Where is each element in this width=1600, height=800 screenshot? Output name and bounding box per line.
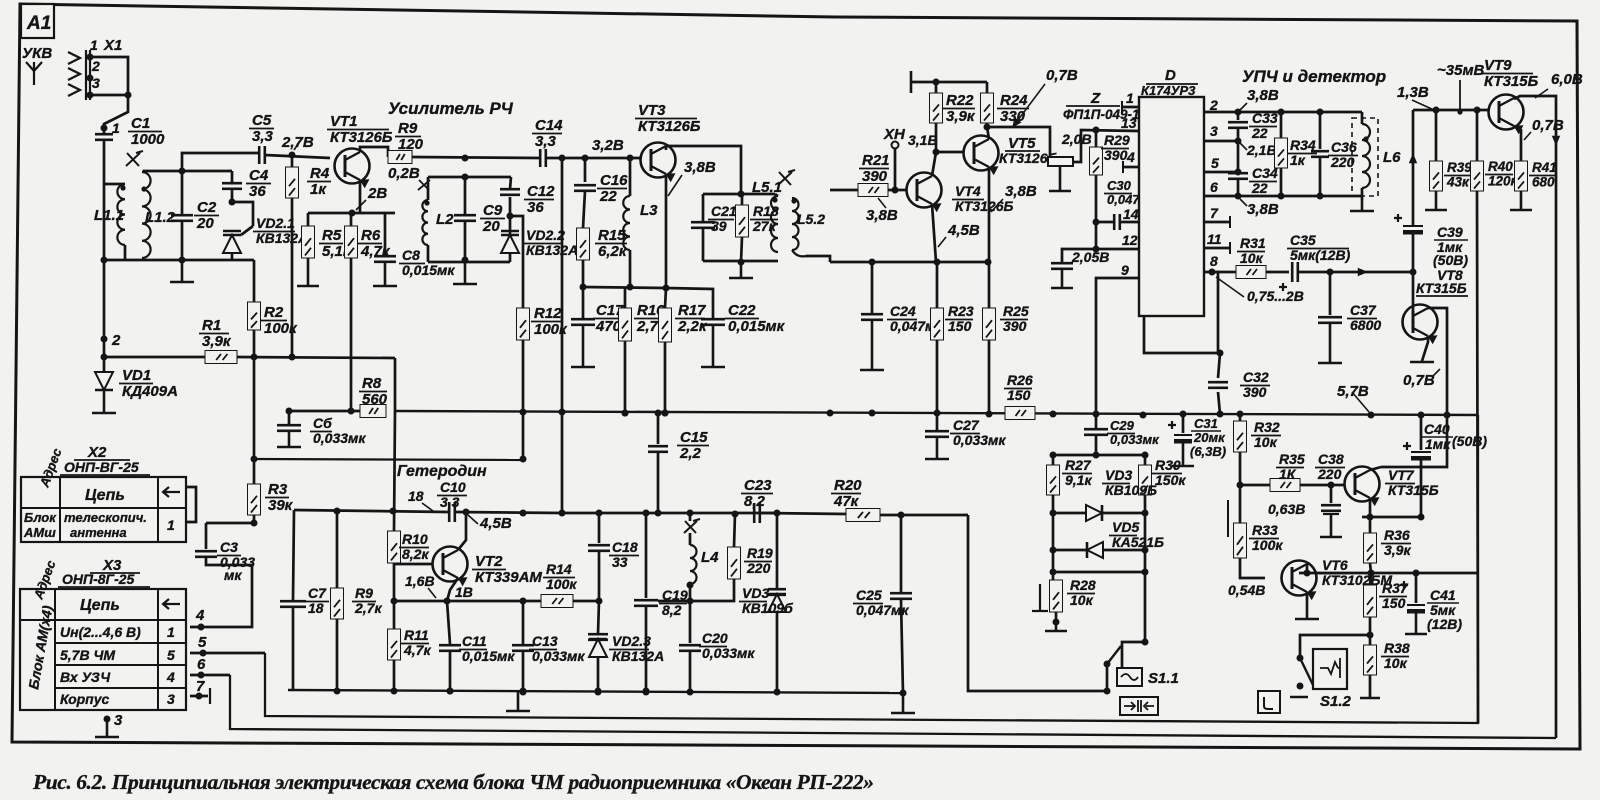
svg-text:0,75...2В: 0,75...2В [1247, 288, 1304, 304]
svg-text:9: 9 [1121, 262, 1129, 278]
svg-text:С33: С33 [1252, 110, 1278, 126]
svg-text:0,015мк: 0,015мк [402, 262, 455, 278]
resistor R2 [253, 260, 256, 302]
svg-text:С36: С36 [1331, 139, 1357, 155]
resistor R15 [583, 191, 585, 228]
wire [206, 522, 254, 525]
svg-text:3,3: 3,3 [252, 128, 274, 145]
resistor R34 [1280, 112, 1283, 138]
wire arrow up [1412, 110, 1415, 226]
svg-text:3,9к: 3,9к [946, 108, 976, 125]
transistor VT9 [1481, 57, 1539, 90]
tuning mark [778, 170, 795, 185]
svg-text:VT2: VT2 [475, 553, 503, 570]
svg-text:R20: R20 [834, 477, 862, 494]
power rail [910, 71, 913, 93]
svg-text:0,015мк: 0,015мк [728, 318, 786, 335]
svg-text:3: 3 [1210, 123, 1218, 139]
svg-text:Вх УЗЧ: Вх УЗЧ [60, 669, 111, 685]
svg-text:390: 390 [1243, 384, 1267, 400]
transistor VT2 [433, 547, 468, 587]
resistor R1 [205, 351, 237, 364]
svg-text:L1.2: L1.2 [145, 209, 176, 226]
svg-text:560: 560 [362, 391, 388, 408]
connector X3 table [20, 557, 186, 710]
svg-text:R38: R38 [1384, 640, 1410, 656]
svg-text:R19: R19 [747, 545, 773, 561]
inductor L1.1 [117, 184, 125, 245]
svg-text:680: 680 [1532, 175, 1555, 190]
svg-text:0,033мк: 0,033мк [532, 648, 585, 664]
transistor VT7 [1345, 467, 1380, 507]
svg-text:8: 8 [1210, 253, 1218, 269]
svg-text:2,0В: 2,0В [1061, 131, 1092, 147]
svg-text:С20: С20 [702, 630, 728, 646]
svg-text:10к: 10к [1384, 655, 1408, 671]
wire [360, 147, 388, 157]
resistor R25 [988, 262, 991, 308]
svg-text:1,6В: 1,6В [405, 573, 435, 589]
svg-text:0,033мк: 0,033мк [953, 432, 1006, 448]
connector X1 [68, 37, 122, 100]
resistor R3 [253, 459, 256, 484]
wire base VT5 [936, 151, 963, 154]
svg-text:С39: С39 [1437, 224, 1463, 240]
svg-text:10к: 10к [1070, 592, 1094, 608]
svg-text:1: 1 [112, 120, 120, 136]
svg-text:R28: R28 [1070, 577, 1096, 593]
svg-text:6800: 6800 [1350, 317, 1381, 333]
resistor R16 [624, 287, 627, 308]
ground [729, 262, 753, 278]
svg-text:22: 22 [1251, 125, 1268, 141]
capacitor C5 [259, 146, 265, 164]
svg-text:R24: R24 [1000, 92, 1028, 109]
wire [1300, 484, 1344, 487]
resistor R21 [858, 184, 888, 197]
svg-text:С22: С22 [728, 302, 756, 319]
svg-text:R1: R1 [202, 317, 221, 334]
resistor R9 [388, 151, 412, 164]
resistor R22 [935, 82, 938, 93]
svg-text:0,7В: 0,7В [1532, 117, 1564, 134]
wire [1053, 454, 1145, 457]
svg-text:220: 220 [746, 560, 771, 576]
svg-text:Рис. 6.2. Принципиальная элект: Рис. 6.2. Принципиальная электрическая с… [32, 770, 874, 794]
svg-text:3,9к: 3,9к [202, 333, 232, 350]
connector X2 table [21, 444, 186, 542]
svg-text:R25: R25 [1003, 303, 1029, 319]
resistor R4 [291, 155, 294, 167]
antenna УКВ [22, 45, 52, 85]
svg-text:С11: С11 [462, 633, 487, 649]
svg-text:0,033мк: 0,033мк [313, 430, 366, 446]
wire VT8 collector [1428, 308, 1447, 414]
wire mixer bus [806, 256, 830, 262]
svg-text:4,5В: 4,5В [479, 515, 512, 532]
svg-text:ОНП-8Г-25: ОНП-8Г-25 [62, 571, 135, 587]
svg-text:11: 11 [1207, 231, 1222, 247]
wire [1266, 271, 1289, 274]
wire VT7 collector [1370, 467, 1381, 470]
inductor L5.2 [792, 198, 799, 250]
svg-text:R6: R6 [361, 227, 381, 244]
capacitor C8 [384, 213, 387, 255]
svg-text:2: 2 [1209, 97, 1218, 113]
svg-text:3,3: 3,3 [535, 133, 557, 150]
svg-text:С8: С8 [402, 247, 420, 263]
svg-text:3: 3 [114, 712, 123, 729]
capacitor C37 [1329, 272, 1332, 315]
svg-text:43к: 43к [1446, 175, 1470, 190]
svg-text:2,1В: 2,1В [1246, 142, 1277, 158]
svg-text:0,7В: 0,7В [1046, 67, 1078, 84]
wire VT3 emitter [665, 174, 668, 288]
svg-text:VD2.2: VD2.2 [526, 227, 565, 243]
capacitor C20 [689, 601, 692, 643]
wire [104, 183, 125, 186]
switch S1.1 [1122, 642, 1145, 668]
svg-text:10к: 10к [1254, 434, 1278, 450]
svg-text:Усилитель РЧ: Усилитель РЧ [388, 99, 514, 118]
resistor R35 [1240, 484, 1270, 487]
wire [456, 512, 562, 513]
svg-text:Корпус: Корпус [60, 691, 110, 707]
resistor R5 [307, 213, 310, 226]
svg-text:47к: 47к [833, 493, 860, 510]
svg-text:150: 150 [1007, 387, 1031, 403]
ground [1049, 166, 1071, 191]
svg-text:К174УР3: К174УР3 [1141, 83, 1196, 98]
jack symbol [1258, 691, 1280, 713]
svg-text:3,1В: 3,1В [908, 132, 938, 148]
capacitor C36 [1319, 112, 1322, 149]
svg-text:С38: С38 [1318, 451, 1344, 467]
transistor VT5 [964, 136, 999, 176]
resistor R23 [936, 262, 939, 308]
wire oscillator bus right [562, 512, 777, 515]
svg-text:2,05В: 2,05В [1071, 249, 1109, 265]
svg-text:0,015мк: 0,015мк [462, 648, 515, 664]
svg-text:R21: R21 [862, 152, 890, 169]
IC D К174УР3 [1139, 67, 1204, 316]
transistor VT1 emitter wire [359, 180, 362, 213]
capacitor C40 electrolytic [1403, 442, 1411, 450]
wire [289, 410, 360, 413]
resistor R39 [1435, 110, 1438, 161]
wire tank left [702, 194, 705, 221]
svg-text:1к: 1к [310, 181, 327, 198]
svg-text:22: 22 [599, 188, 617, 205]
svg-text:VT7: VT7 [1388, 467, 1415, 483]
svg-text:L1.1: L1.1 [94, 207, 124, 224]
svg-text:18: 18 [308, 600, 324, 616]
svg-text:27к: 27к [752, 218, 777, 234]
wire [666, 288, 713, 319]
svg-text:УКВ: УКВ [22, 45, 52, 62]
transistor VT6 [1282, 561, 1317, 601]
wire to R12 [510, 216, 523, 308]
svg-text:20: 20 [196, 215, 214, 232]
svg-text:R14: R14 [546, 561, 572, 577]
wire [104, 259, 232, 262]
svg-text:R36: R36 [1384, 527, 1410, 543]
svg-text:1: 1 [1126, 90, 1134, 106]
wire VT5 collector [987, 127, 989, 139]
capacitor C21 [691, 222, 715, 228]
inductor L2 [418, 180, 430, 190]
svg-text:5: 5 [167, 647, 175, 663]
resistor R11 [393, 601, 396, 629]
svg-text:8,2: 8,2 [744, 493, 766, 510]
wire [547, 157, 641, 160]
svg-text:1000: 1000 [131, 131, 165, 148]
svg-text:R33: R33 [1252, 522, 1278, 538]
svg-text:39: 39 [711, 218, 727, 234]
capacitor C32 [1218, 353, 1220, 378]
svg-text:L3: L3 [640, 202, 658, 219]
wire [90, 94, 128, 97]
inductor L5.1 [771, 196, 778, 252]
resistor R37 [1370, 573, 1371, 585]
svg-text:АМш: АМш [23, 525, 56, 540]
resistor R24 [986, 82, 989, 93]
capacitor C24 [871, 262, 874, 313]
svg-text:Uн(2...4,6 В): Uн(2...4,6 В) [60, 624, 141, 640]
wire collector to VT7 [1381, 415, 1447, 467]
wire [583, 287, 666, 288]
symbol push [1120, 697, 1158, 715]
svg-text:D: D [1165, 67, 1176, 84]
svg-text:R11: R11 [404, 627, 429, 643]
svg-text:1: 1 [167, 624, 175, 640]
svg-text:VD5: VD5 [1112, 519, 1139, 535]
svg-text:36: 36 [249, 183, 266, 200]
svg-text:R35: R35 [1279, 451, 1305, 467]
pin 4 node [198, 624, 205, 631]
svg-text:VT3: VT3 [638, 102, 666, 119]
svg-text:R39: R39 [1447, 160, 1472, 175]
svg-text:R41: R41 [1532, 160, 1557, 175]
svg-text:36: 36 [527, 199, 544, 216]
svg-text:VT4: VT4 [955, 183, 981, 199]
wire [761, 513, 846, 514]
wire filter out [1073, 130, 1139, 162]
switch S1.2 [1300, 635, 1370, 655]
svg-text:КА521Б: КА521Б [1112, 534, 1164, 550]
bus 573 [1299, 572, 1478, 575]
capacitor C30 [1114, 214, 1120, 230]
pin 5 node [190, 652, 265, 655]
svg-text:220: 220 [1330, 154, 1355, 170]
svg-text:2,2: 2,2 [679, 445, 702, 462]
svg-text:~35мВ: ~35мВ [1437, 62, 1485, 79]
resistor R33 [1227, 500, 1229, 537]
svg-text:КТ315Б: КТ315Б [1388, 482, 1439, 498]
capacitor C13 [522, 601, 525, 644]
svg-text:R32: R32 [1254, 419, 1280, 435]
capacitor C34 [1237, 141, 1240, 170]
svg-text:УПЧ и детектор: УПЧ и детектор [1242, 67, 1386, 86]
wire bus to S1.1 loop [265, 415, 1478, 723]
transistor VT1 [335, 149, 370, 189]
varactor VD2.2 [509, 252, 512, 262]
svg-text:5,7В: 5,7В [1337, 383, 1369, 400]
wire VT6 collector [1306, 564, 1309, 573]
wire [1362, 516, 1421, 519]
wire + ground [428, 261, 510, 264]
svg-text:S1.1: S1.1 [1148, 670, 1179, 687]
capacitor C27 [936, 413, 939, 430]
ground [1361, 196, 1364, 200]
svg-text:Z: Z [1090, 90, 1101, 107]
capacitor C22 [701, 319, 725, 325]
inductor L6 [1352, 118, 1378, 196]
resistor R6 [350, 213, 353, 226]
resistor R40 [1476, 110, 1479, 161]
wire + ground [181, 221, 184, 260]
resistor R41 [1515, 161, 1528, 191]
svg-text:С14: С14 [535, 117, 563, 134]
wire [428, 176, 511, 179]
svg-text:С30: С30 [1107, 178, 1132, 193]
svg-text:R9: R9 [398, 120, 418, 137]
svg-text:КВ132А: КВ132А [612, 648, 664, 664]
svg-text:телескопич.: телескопич. [64, 510, 147, 525]
svg-text:R15: R15 [598, 227, 626, 244]
svg-text:мк: мк [224, 567, 242, 583]
transistor VT4 [907, 173, 942, 213]
svg-text:КТ3126Б: КТ3126Б [638, 118, 701, 135]
svg-text:А1: А1 [26, 13, 51, 34]
svg-text:R40: R40 [1488, 159, 1513, 174]
svg-text:120к: 120к [1488, 174, 1519, 189]
wire tank bottom [703, 260, 778, 263]
wire VT7 emitter [1369, 498, 1372, 517]
bottom common bus [288, 690, 903, 693]
svg-text:4: 4 [166, 669, 175, 685]
svg-text:0,54В: 0,54В [1228, 582, 1265, 598]
capacitor C12 [509, 197, 512, 216]
wire bus2 [230, 675, 1556, 738]
svg-text:33: 33 [612, 554, 628, 570]
wire VT4 collector [932, 152, 936, 176]
wire [1050, 569, 1057, 576]
resistor R14 [541, 595, 573, 608]
svg-text:R3: R3 [268, 481, 288, 498]
wire tank top [703, 193, 775, 196]
wire VT2 collector [458, 512, 466, 550]
wire [830, 189, 858, 192]
svg-text:20мк: 20мк [1193, 430, 1226, 445]
svg-text:(50В): (50В) [1452, 433, 1487, 449]
svg-text:R4: R4 [310, 165, 330, 182]
svg-text:4,5В: 4,5В [947, 222, 980, 239]
ground [506, 692, 530, 711]
svg-text:VD2.1: VD2.1 [256, 215, 295, 231]
inductor L3 [629, 158, 632, 196]
node 3 ground [104, 716, 111, 723]
svg-text:L4: L4 [701, 549, 719, 566]
wire [1298, 271, 1413, 274]
svg-text:R17: R17 [678, 302, 706, 319]
svg-text:С35: С35 [1290, 232, 1316, 248]
svg-text:С27: С27 [953, 417, 980, 433]
svg-text:КВ132А: КВ132А [526, 242, 578, 258]
svg-text:С18: С18 [612, 539, 638, 555]
varactor VD2.1 [231, 189, 234, 202]
capacitor C38 [1330, 485, 1333, 503]
svg-text:S1.2: S1.2 [1320, 693, 1352, 710]
varactor VD3 bottom [776, 513, 779, 589]
svg-text:С13: С13 [532, 633, 558, 649]
svg-text:КТ3126Б: КТ3126Б [330, 129, 393, 146]
capacitor C35 [1279, 283, 1287, 291]
svg-text:1,3В: 1,3В [1397, 84, 1429, 101]
svg-text:R23: R23 [948, 303, 974, 319]
svg-text:330: 330 [1000, 108, 1026, 125]
svg-text:5: 5 [198, 634, 207, 651]
node 2 [101, 336, 108, 343]
svg-text:1к: 1к [1290, 152, 1306, 168]
wire VT4 emitter [932, 204, 936, 262]
pin 6 node [190, 674, 230, 677]
wire [1212, 272, 1218, 353]
svg-text:10к: 10к [1240, 250, 1264, 266]
resistor R28 [1032, 584, 1048, 611]
inductor L4 [689, 513, 692, 521]
svg-text:1К: 1К [1279, 466, 1297, 482]
svg-text:Гетеродин: Гетеродин [397, 463, 487, 480]
capacitor C14 [540, 149, 546, 167]
svg-text:22: 22 [1251, 180, 1268, 196]
wire [880, 514, 968, 517]
svg-text:С12: С12 [527, 183, 555, 200]
svg-text:2,7к: 2,7к [354, 600, 382, 616]
svg-text:150: 150 [1382, 595, 1406, 611]
wire pin 12 [1093, 246, 1100, 253]
resistor R36 [1369, 517, 1372, 533]
wire [888, 189, 907, 192]
capacitor C9 [464, 177, 467, 214]
svg-text:Сб: Сб [313, 415, 332, 431]
svg-text:С40: С40 [1424, 421, 1450, 437]
svg-text:R10: R10 [402, 531, 428, 547]
wire VT5 emitter [988, 167, 991, 262]
capacitor C25 [900, 515, 903, 592]
wire VT3 collector [666, 146, 741, 194]
svg-text:2,2к: 2,2к [677, 318, 708, 335]
block designator box A1 [21, 4, 54, 38]
svg-text:С23: С23 [744, 477, 772, 494]
svg-text:X1: X1 [103, 37, 122, 54]
svg-text:470: 470 [595, 318, 622, 335]
svg-text:150к: 150к [1155, 472, 1186, 488]
wire [237, 357, 395, 358]
svg-text:4: 4 [1126, 149, 1135, 165]
svg-text:3,8В: 3,8В [1247, 201, 1279, 218]
svg-text:антенна: антенна [70, 525, 127, 540]
pin 4 [1123, 166, 1139, 169]
svg-text:R31: R31 [1240, 235, 1266, 251]
svg-text:С2: С2 [197, 199, 217, 216]
resistor R8 [360, 405, 386, 418]
filter Z ФП1П-049-1 [1048, 157, 1073, 166]
svg-text:0,033мк: 0,033мк [1110, 432, 1160, 447]
wire VT8 emitter [1422, 336, 1428, 361]
node 1 [101, 125, 108, 132]
svg-text:С10: С10 [440, 479, 466, 495]
